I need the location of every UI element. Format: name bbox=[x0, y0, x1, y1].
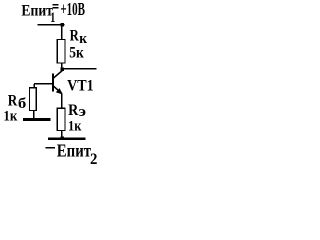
junction dot top bbox=[60, 23, 64, 27]
emitter wire to RE bbox=[61, 94, 63, 108]
resistor RE body bbox=[57, 108, 65, 130]
collector lead of VT1 bbox=[54, 70, 63, 78]
svg-text:5к: 5к bbox=[69, 45, 84, 62]
svg-text:Епит: Епит bbox=[21, 3, 53, 20]
wire RE to bottom rail bbox=[61, 130, 63, 138]
svg-text:R: R bbox=[70, 28, 80, 45]
svg-text:+10В: +10В bbox=[60, 0, 85, 19]
svg-text:Епит: Епит bbox=[57, 141, 91, 161]
wire base to RB bbox=[34, 84, 35, 88]
wire rail to R_K bbox=[61, 26, 63, 40]
svg-text:1к: 1к bbox=[3, 108, 17, 124]
svg-text:VT1: VT1 bbox=[67, 78, 94, 95]
svg-text:э: э bbox=[79, 104, 86, 120]
junction dot bottom bbox=[60, 136, 64, 140]
svg-text:2: 2 bbox=[90, 151, 97, 168]
svg-text:R: R bbox=[68, 102, 79, 119]
base bar of VT1 bbox=[52, 74, 54, 92]
svg-text:1: 1 bbox=[50, 10, 55, 26]
collector output wire bbox=[64, 68, 97, 70]
resistor RK body bbox=[57, 39, 65, 63]
emitter arrowhead bbox=[56, 88, 63, 94]
minus sign bbox=[45, 147, 55, 149]
power rail +Epit1 bbox=[38, 24, 65, 26]
junction dot collector bbox=[60, 67, 64, 71]
wire RB to ground bbox=[33, 111, 35, 119]
equals sign bbox=[52, 4, 58, 5]
svg-text:б: б bbox=[18, 96, 26, 112]
svg-text:R: R bbox=[8, 93, 18, 110]
ground bar bbox=[23, 118, 51, 121]
svg-text:1к: 1к bbox=[68, 119, 82, 135]
resistor RB body bbox=[30, 88, 37, 111]
emitter lead of VT1 bbox=[54, 86, 62, 93]
power rail -Epit2 bbox=[48, 138, 86, 140]
base wire bbox=[34, 83, 52, 85]
wire RK to collector node bbox=[61, 63, 63, 68]
